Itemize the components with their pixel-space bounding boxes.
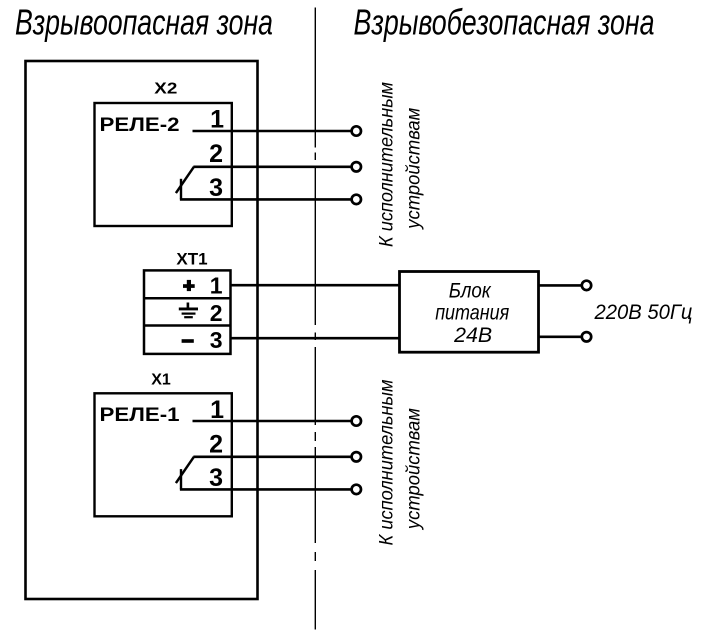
plus symbol — [183, 280, 195, 291]
relay contact fixed post X2 — [180, 179, 182, 200]
terminal circle X2-1 — [352, 126, 361, 135]
terminal circle X2-3 — [352, 195, 361, 204]
relay contact arm X1 — [176, 457, 194, 483]
terminal circle X1-1 — [352, 416, 361, 425]
terminal circle mains L — [582, 281, 591, 290]
wire X1 pin3 — [180, 488, 352, 491]
svg-text:Взрывоопасная зона: Взрывоопасная зона — [15, 2, 273, 43]
power supply unit box — [400, 272, 539, 353]
terminal circle X2-2 — [352, 162, 361, 171]
connector X1 box — [95, 393, 232, 516]
wire X1 pin2 — [193, 455, 351, 458]
svg-text:К исполнительным: К исполнительным — [377, 82, 398, 247]
connector X2 box — [95, 103, 232, 226]
svg-text:220В 50Гц: 220В 50Гц — [594, 301, 693, 324]
minus symbol — [182, 339, 194, 343]
wire XT1 pin3 to PSU — [231, 337, 401, 340]
svg-text:Х2: Х2 — [154, 81, 177, 98]
svg-text:Блок: Блок — [449, 280, 492, 303]
wire X2 pin3 — [180, 198, 352, 201]
wire XT1 pin1 to PSU — [231, 284, 401, 287]
svg-text:питания: питания — [435, 302, 509, 325]
wire PSU mains L — [539, 284, 582, 287]
terminal circle X1-2 — [352, 452, 361, 461]
enclosure box — [26, 61, 258, 599]
svg-text:2: 2 — [209, 140, 223, 168]
XT1 row divider 1 — [144, 297, 231, 300]
svg-text:РЕЛЕ-1: РЕЛЕ-1 — [100, 405, 181, 426]
wire X1 pin1 — [193, 420, 352, 423]
svg-text:3: 3 — [209, 464, 223, 492]
svg-text:Взрывобезопасная зона: Взрывобезопасная зона — [354, 2, 655, 43]
relay contact arm X2 — [176, 167, 194, 193]
wire PSU mains N — [539, 335, 582, 338]
svg-text:24В: 24В — [453, 324, 492, 347]
terminal circle X1-3 — [352, 485, 361, 494]
svg-text:1: 1 — [210, 272, 223, 298]
svg-text:К исполнительным: К исполнительным — [377, 380, 398, 546]
svg-text:Х1: Х1 — [151, 372, 171, 389]
svg-text:ХТ1: ХТ1 — [176, 249, 207, 268]
svg-text:1: 1 — [210, 396, 224, 424]
svg-text:2: 2 — [209, 430, 223, 458]
earth symbol — [179, 303, 198, 318]
svg-text:3: 3 — [209, 174, 223, 202]
svg-text:устройствам: устройствам — [404, 108, 425, 231]
wire X2 pin1 — [193, 130, 352, 133]
relay contact fixed post X1 — [180, 469, 182, 489]
svg-text:РЕЛЕ-2: РЕЛЕ-2 — [100, 115, 180, 136]
wire X2 pin2 — [193, 166, 351, 169]
XT1 row divider 2 — [144, 324, 231, 327]
svg-text:2: 2 — [210, 300, 223, 326]
svg-text:устройствам: устройствам — [404, 408, 425, 531]
zone divider dash-dot line — [314, 8, 316, 630]
terminal circle mains N — [582, 332, 591, 341]
svg-text:3: 3 — [210, 327, 223, 353]
svg-text:1: 1 — [210, 106, 224, 134]
terminal block XT1 box — [144, 270, 231, 354]
